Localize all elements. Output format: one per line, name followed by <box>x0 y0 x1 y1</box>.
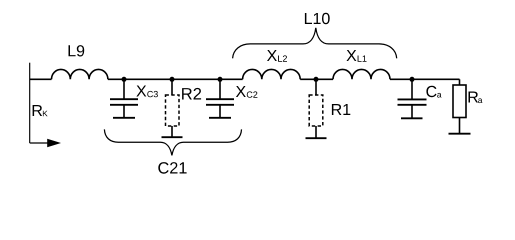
capacitor XC2 <box>206 79 234 118</box>
wire: source to L9 <box>30 78 52 80</box>
resistor R2 (dashed) <box>162 79 183 137</box>
source line (left vertical) <box>29 63 31 143</box>
inductor XL2 <box>243 69 301 79</box>
wire: XL2 to XL1 <box>300 78 333 80</box>
label Ca <box>426 86 441 98</box>
label R1 <box>332 104 350 115</box>
resistor R1 (dashed) <box>306 79 327 138</box>
resistor Ra <box>449 79 471 133</box>
inductor L9 <box>52 69 108 79</box>
capacitor XC3 <box>110 79 138 118</box>
label XL2 <box>267 50 287 62</box>
label XL1 <box>347 50 367 62</box>
capacitor Ca <box>398 79 427 118</box>
wire: L9 to XL2 <box>108 78 243 80</box>
label L9 <box>69 45 85 56</box>
label Ra <box>469 92 483 104</box>
label XC3 <box>136 86 158 98</box>
brace C21 (under XC3, R2, XC2) <box>104 129 241 155</box>
inductor XL1 <box>333 69 390 79</box>
label C21 <box>158 162 186 174</box>
label L10 <box>305 13 330 24</box>
label XC2 <box>236 86 258 98</box>
node at R2 <box>170 77 175 82</box>
node at R1 <box>314 77 319 82</box>
node at XC2 <box>218 77 223 82</box>
wire: XL1 to Ra corner <box>390 78 460 80</box>
label R2 <box>182 88 201 100</box>
brace L10 (over XL2 and XL1) <box>233 28 397 59</box>
label RK <box>33 105 48 116</box>
node at XC3 <box>122 77 127 82</box>
arrow at bottom of source line <box>30 142 48 144</box>
node at Ca <box>410 77 415 82</box>
